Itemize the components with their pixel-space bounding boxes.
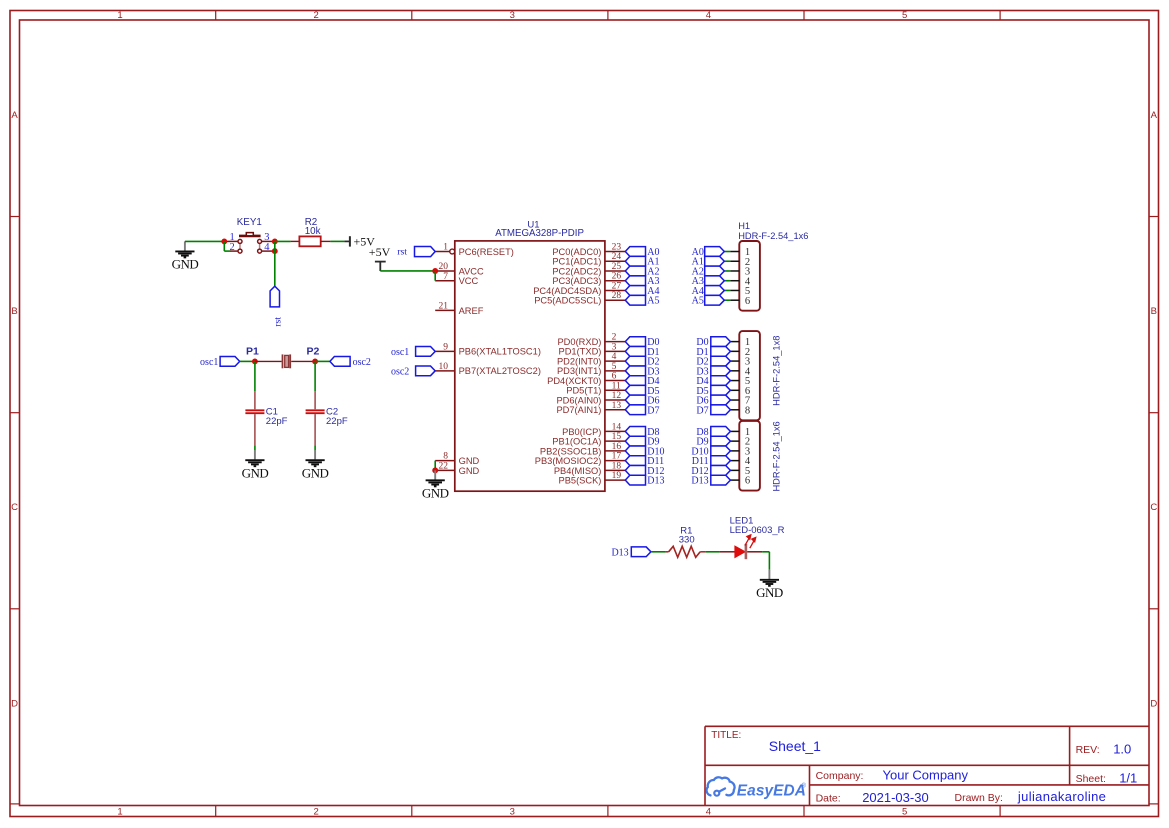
svg-text:20: 20 <box>439 262 449 272</box>
svg-text:Sheet:: Sheet: <box>1076 773 1106 785</box>
svg-text:AVCC: AVCC <box>459 266 484 276</box>
wire R1 to LED1 <box>705 551 720 553</box>
svg-text:9: 9 <box>443 342 448 352</box>
net flag D10 at 1x6 header pin 3 <box>691 446 730 457</box>
junction KEY1 pin3 <box>272 238 278 244</box>
svg-text:D13: D13 <box>691 476 708 487</box>
U1 pin 10 PB7(XTAL2TOSC2) <box>435 362 541 376</box>
wire GND to KEY1 pin 1 <box>185 240 224 242</box>
svg-text:®: ® <box>802 783 807 790</box>
U1 pin 13 PD7(AIN1) with net flag D7 <box>556 401 659 417</box>
wire crystal to P2 <box>291 360 315 362</box>
svg-text:HDR-F-2.54_1x6: HDR-F-2.54_1x6 <box>738 231 808 241</box>
wire +5V to AVCC <box>380 270 434 272</box>
svg-text:TITLE:: TITLE: <box>711 730 741 741</box>
svg-text:12: 12 <box>612 391 622 401</box>
U1 pin 23 PC0(ADC0) with net flag A0 <box>552 243 659 259</box>
net flag D4 at 1x8 header pin 5 <box>696 376 730 387</box>
svg-text:osc1: osc1 <box>391 347 409 358</box>
svg-text:A5: A5 <box>692 296 704 307</box>
svg-text:1/1: 1/1 <box>1119 770 1137 785</box>
U1 pin 19 PB5(SCK) with net flag D13 <box>559 471 665 487</box>
ground LED1 <box>756 570 783 600</box>
svg-text:C: C <box>1150 502 1157 513</box>
svg-text:rst: rst <box>272 317 283 327</box>
svg-text:D7: D7 <box>696 405 708 416</box>
svg-text:14: 14 <box>612 422 622 432</box>
U1 pin 3 PD1(TXD) with net flag D1 <box>559 342 660 358</box>
resistor R1 330 <box>666 526 706 558</box>
op-amp U1 body <box>455 241 605 491</box>
svg-text:D13: D13 <box>611 547 628 558</box>
svg-text:GND: GND <box>756 585 783 600</box>
net flag D7 at 1x8 header pin 8 <box>696 405 730 416</box>
svg-text:3: 3 <box>612 342 617 352</box>
svg-text:PC5(ADC5SCL): PC5(ADC5SCL) <box>534 296 601 306</box>
svg-text:PC0(ADC0): PC0(ADC0) <box>552 247 601 257</box>
svg-text:P2: P2 <box>306 345 319 357</box>
net flag rst below KEY1 <box>270 286 283 327</box>
net flag D2 at 1x8 header pin 3 <box>696 356 730 367</box>
net flag D8 at 1x6 header pin 1 <box>696 427 730 438</box>
svg-text:D13: D13 <box>647 476 664 487</box>
crystal X1 <box>283 354 291 368</box>
svg-text:5: 5 <box>902 807 907 818</box>
net flag D9 at 1x6 header pin 2 <box>696 436 730 447</box>
svg-text:6: 6 <box>745 296 750 307</box>
net flag D0 at 1x8 header pin 1 <box>696 337 730 348</box>
svg-text:5: 5 <box>612 362 617 372</box>
svg-text:GND: GND <box>242 465 269 480</box>
wire P1 to crystal <box>255 360 282 362</box>
svg-text:5: 5 <box>902 10 907 21</box>
svg-text:2: 2 <box>314 807 319 818</box>
wire KEY1 to rst flag <box>274 241 276 286</box>
U1 pin 20 AVCC <box>435 262 484 276</box>
svg-text:7: 7 <box>443 272 448 282</box>
svg-text:3: 3 <box>510 10 515 21</box>
svg-text:ATMEGA328P-PDIP: ATMEGA328P-PDIP <box>495 228 584 239</box>
net flag A3 at H1 pin 4 <box>692 276 725 287</box>
svg-text:6: 6 <box>745 476 750 487</box>
svg-text:PB0(ICP): PB0(ICP) <box>562 427 601 437</box>
svg-text:28: 28 <box>612 291 622 301</box>
U1 pin 25 PC2(ADC2) with net flag A2 <box>552 262 659 278</box>
U1 pin 1 PC6(RESET) <box>435 243 514 257</box>
svg-text:22pF: 22pF <box>266 416 288 427</box>
wire P2 to osc2 <box>315 360 330 362</box>
svg-text:GND: GND <box>459 456 480 466</box>
svg-text:H1: H1 <box>738 221 750 231</box>
net flag A1 at H1 pin 2 <box>692 256 725 267</box>
svg-text:A: A <box>11 110 18 121</box>
capacitor C2 22pF with wires <box>306 361 348 450</box>
svg-text:osc1: osc1 <box>200 357 218 368</box>
svg-text:P1: P1 <box>246 345 259 357</box>
U1 pin 9 PB6(XTAL1TOSC1) <box>435 342 541 356</box>
net flag osc1 at U1 pin 9 <box>391 346 435 357</box>
svg-text:B: B <box>11 306 17 317</box>
wire KEY1 to R2 <box>275 240 300 242</box>
svg-text:PB1(OC1A): PB1(OC1A) <box>552 437 601 447</box>
connector HDR-F-2.54_1x6 lower <box>730 421 759 491</box>
svg-text:PC2(ADC2): PC2(ADC2) <box>552 266 601 276</box>
junction KEY1 pin4 <box>272 248 278 254</box>
net flag D6 at 1x8 header pin 7 <box>696 395 730 406</box>
U1 pin 14 PB0(ICP) with net flag D8 <box>562 422 659 438</box>
svg-text:2021-03-30: 2021-03-30 <box>862 790 929 805</box>
wire to KEY1 pin 2 <box>224 241 230 251</box>
svg-text:KEY1: KEY1 <box>237 217 262 228</box>
svg-text:EasyEDA: EasyEDA <box>737 782 806 799</box>
svg-text:Sheet_1: Sheet_1 <box>769 738 821 754</box>
svg-text:B: B <box>1151 306 1157 317</box>
svg-text:PB3(MOSIOC2): PB3(MOSIOC2) <box>535 456 602 466</box>
net flag osc2 at crystal <box>330 357 371 368</box>
+5V supply at AVCC <box>369 245 391 271</box>
sheet 1/1 <box>1076 770 1138 785</box>
svg-text:18: 18 <box>612 461 622 471</box>
svg-text:HDR-F-2.54_1x8: HDR-F-2.54_1x8 <box>771 336 781 406</box>
svg-text:1.0: 1.0 <box>1113 741 1131 756</box>
svg-text:PC1(ADC1): PC1(ADC1) <box>552 257 601 267</box>
net flag D13 at LED circuit <box>611 547 650 558</box>
svg-text:10: 10 <box>439 362 449 372</box>
svg-text:PD1(TXD): PD1(TXD) <box>559 347 602 357</box>
svg-text:10k: 10k <box>305 226 321 237</box>
net flag D13 at 1x6 header pin 6 <box>691 475 730 486</box>
svg-text:PD6(AIN0): PD6(AIN0) <box>556 395 601 405</box>
title Sheet_1 <box>711 730 821 754</box>
net flag A2 at H1 pin 3 <box>692 266 725 277</box>
svg-text:1: 1 <box>117 10 122 21</box>
junction KEY1 left <box>221 238 227 244</box>
svg-text:D7: D7 <box>647 405 659 416</box>
U1 pin 18 PB4(MISO) with net flag D12 <box>554 461 665 477</box>
U1 pin 5 PD3(INT1) with net flag D3 <box>557 362 660 378</box>
ground U1 <box>422 470 449 500</box>
net flag osc1 at crystal <box>200 357 240 368</box>
svg-text:GND: GND <box>422 486 449 501</box>
svg-text:GND: GND <box>172 257 199 272</box>
HDR 1x6 label <box>771 421 781 491</box>
svg-text:22: 22 <box>439 461 449 471</box>
U1 pin 24 PC1(ADC1) with net flag A1 <box>552 252 659 268</box>
node P1 <box>246 345 259 364</box>
switch KEY1 <box>227 217 272 253</box>
svg-text:PC4(ADC4SDA): PC4(ADC4SDA) <box>533 286 601 296</box>
node P2 <box>306 345 319 364</box>
svg-text:4: 4 <box>264 242 270 253</box>
H1 labels <box>738 221 808 241</box>
svg-text:16: 16 <box>612 442 622 452</box>
svg-text:A: A <box>1151 110 1158 121</box>
svg-text:Date:: Date: <box>816 793 841 805</box>
svg-text:21: 21 <box>439 302 449 312</box>
svg-text:HDR-F-2.54_1x6: HDR-F-2.54_1x6 <box>771 421 781 491</box>
svg-text:Drawn By:: Drawn By: <box>955 792 1003 804</box>
U1 pin 16 PB2(SSOC1B) with net flag D10 <box>540 442 665 458</box>
svg-text:REV:: REV: <box>1076 744 1100 756</box>
svg-text:PD4(XCKT0): PD4(XCKT0) <box>547 376 601 386</box>
svg-text:PB7(XTAL2TOSC2): PB7(XTAL2TOSC2) <box>459 366 541 376</box>
svg-text:Company:: Company: <box>816 770 864 782</box>
ground C2 <box>302 450 329 480</box>
svg-text:osc2: osc2 <box>353 357 371 368</box>
svg-text:13: 13 <box>612 401 622 411</box>
junction AVCC <box>432 268 438 274</box>
connector H1 HDR-F-2.54_1x6 <box>724 241 760 311</box>
U1 pin 28 PC5(ADC5SCL) with net flag A5 <box>534 291 659 307</box>
svg-text:+5V: +5V <box>354 235 376 249</box>
capacitor C1 22pF with wires <box>245 361 287 450</box>
connector HDR-F-2.54_1x8 <box>730 331 759 420</box>
svg-text:Your Company: Your Company <box>883 767 969 782</box>
net flag D3 at 1x8 header pin 4 <box>696 366 730 377</box>
svg-text:PC6(RESET): PC6(RESET) <box>459 247 514 257</box>
svg-text:330: 330 <box>679 535 695 546</box>
net flag A4 at H1 pin 5 <box>692 286 725 297</box>
svg-text:D: D <box>11 698 18 709</box>
U1 pin 8 GND <box>435 452 479 466</box>
svg-text:25: 25 <box>612 262 622 272</box>
svg-text:PB6(XTAL1TOSC1): PB6(XTAL1TOSC1) <box>459 347 541 357</box>
svg-text:4: 4 <box>612 352 617 362</box>
svg-text:LED-0603_R: LED-0603_R <box>730 525 785 536</box>
+5V supply at R2 <box>344 235 375 249</box>
svg-text:26: 26 <box>612 272 622 282</box>
net flag rst at U1 pin 1 <box>397 246 435 257</box>
svg-text:A5: A5 <box>647 296 659 307</box>
EasyEDA logo <box>707 777 807 799</box>
net flag D1 at 1x8 header pin 2 <box>696 346 730 357</box>
net flag D12 at 1x6 header pin 5 <box>691 465 730 476</box>
svg-text:GND: GND <box>302 465 329 480</box>
U1 pin 11 PD5(T1) with net flag D5 <box>566 381 659 397</box>
svg-text:PB4(MISO): PB4(MISO) <box>554 466 602 476</box>
svg-text:19: 19 <box>612 471 622 481</box>
svg-text:PB2(SSOC1B): PB2(SSOC1B) <box>540 446 601 456</box>
svg-text:AREF: AREF <box>459 306 484 316</box>
net flag osc2 at U1 pin 10 <box>391 366 435 377</box>
U1 pin 7 VCC <box>435 272 478 286</box>
LED LED1 LED-0603_R <box>720 516 785 560</box>
U1 pin 12 PD6(AIN0) with net flag D6 <box>556 391 659 407</box>
svg-text:2: 2 <box>612 333 617 343</box>
company <box>816 767 969 782</box>
svg-text:17: 17 <box>612 452 622 462</box>
wire AVCC to VCC <box>434 271 436 281</box>
U1 pin 27 PC4(ADC4SDA) with net flag A4 <box>533 281 659 297</box>
wire R2 to +5V <box>321 240 345 242</box>
U1 pin 6 PD4(XCKT0) with net flag D4 <box>547 372 659 388</box>
U1 pin 17 PB3(MOSIOC2) with net flag D11 <box>535 452 664 468</box>
svg-text:D: D <box>1150 698 1157 709</box>
svg-text:PD7(AIN1): PD7(AIN1) <box>556 405 601 415</box>
wire U1 GND pins join <box>434 461 436 471</box>
svg-text:27: 27 <box>612 281 622 291</box>
net flag D5 at 1x8 header pin 6 <box>696 385 730 396</box>
svg-text:2: 2 <box>230 242 235 253</box>
svg-text:2: 2 <box>314 10 319 21</box>
U1 pin 22 GND <box>435 461 479 475</box>
net flag A5 at H1 pin 6 <box>692 295 725 306</box>
svg-text:4: 4 <box>706 807 711 818</box>
svg-text:11: 11 <box>612 381 621 391</box>
wire LED1 to GND <box>747 552 769 570</box>
ground C1 <box>242 450 269 480</box>
svg-text:PB5(SCK): PB5(SCK) <box>559 476 602 486</box>
U1 pin 2 PD0(RXD) with net flag D0 <box>557 333 659 349</box>
svg-text:23: 23 <box>612 243 622 253</box>
ground KEY1 <box>172 241 199 271</box>
wire osc1 to P1 <box>240 360 255 362</box>
svg-text:22pF: 22pF <box>326 416 348 427</box>
U1 pin 21 AREF <box>435 302 484 316</box>
wire D13 to R1 <box>651 551 666 553</box>
svg-text:3: 3 <box>510 807 515 818</box>
svg-text:24: 24 <box>612 252 622 262</box>
svg-text:rst: rst <box>397 247 407 258</box>
junction U1 GND <box>432 467 438 473</box>
svg-text:PC3(ADC3): PC3(ADC3) <box>552 276 601 286</box>
net flag D11 at 1x6 header pin 4 <box>692 456 731 467</box>
svg-text:1: 1 <box>117 807 122 818</box>
svg-text:15: 15 <box>612 432 622 442</box>
svg-text:osc2: osc2 <box>391 366 409 377</box>
U1 designator and value labels <box>495 220 584 239</box>
U1 pin 15 PB1(OC1A) with net flag D9 <box>552 432 659 448</box>
drawn by <box>955 789 1107 804</box>
rev 1.0 <box>1076 741 1132 756</box>
svg-text:PD0(RXD): PD0(RXD) <box>557 337 601 347</box>
net flag A0 at H1 pin 1 <box>692 247 725 258</box>
svg-text:PD3(INT1): PD3(INT1) <box>557 366 601 376</box>
U1 pin 4 PD2(INT0) with net flag D2 <box>557 352 660 368</box>
HDR 1x8 label <box>771 336 781 406</box>
svg-text:julianakaroline: julianakaroline <box>1017 789 1106 804</box>
svg-text:GND: GND <box>459 466 480 476</box>
svg-text:8: 8 <box>745 405 750 416</box>
svg-text:VCC: VCC <box>459 276 479 286</box>
resistor R2 10k <box>299 217 320 246</box>
title block grid <box>705 726 1149 805</box>
svg-text:PD5(T1): PD5(T1) <box>566 386 601 396</box>
svg-text:C: C <box>11 502 18 513</box>
date <box>816 790 929 805</box>
svg-text:PD2(INT0): PD2(INT0) <box>557 356 601 366</box>
svg-text:1: 1 <box>443 243 448 253</box>
svg-text:4: 4 <box>706 10 711 21</box>
svg-text:8: 8 <box>443 452 448 462</box>
svg-text:6: 6 <box>612 372 617 382</box>
U1 pin 26 PC3(ADC3) with net flag A3 <box>552 272 659 288</box>
